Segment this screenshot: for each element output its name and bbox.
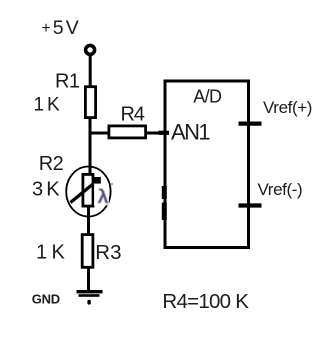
- svg-text:R4=100 K: R4=100 K: [162, 290, 249, 313]
- wire: terminal to R1: [89, 54, 92, 87]
- svg-text:A/D: A/D: [193, 86, 222, 106]
- wire: R1 to R2 through node A: [89, 117, 92, 174]
- svg-text:λ: λ: [98, 186, 109, 208]
- resistor body R2: [83, 174, 93, 206]
- thermistor R2 circle: [66, 167, 110, 217]
- resistor R4: [109, 126, 146, 138]
- resistor R3: [82, 235, 93, 268]
- svg-text:Vref(-): Vref(-): [258, 180, 303, 199]
- pin Vref(-): [239, 203, 262, 207]
- pin Vref(+): [239, 121, 262, 125]
- +5V terminal: [86, 45, 95, 54]
- svg-text:+5V: +5V: [42, 17, 79, 39]
- svg-text:3 K: 3 K: [32, 179, 60, 201]
- svg-text:Vref(+): Vref(+): [263, 98, 312, 117]
- resistor R1: [85, 87, 95, 118]
- ground bar 1: [77, 290, 103, 293]
- svg-text:R3: R3: [95, 241, 121, 264]
- ground dash: [87, 300, 90, 305]
- wire: node A to AN1: [89, 132, 167, 135]
- wire: R3 to ground: [87, 267, 90, 292]
- R2 arrow: [71, 182, 97, 203]
- svg-text:R1: R1: [55, 70, 80, 92]
- svg-text:R2: R2: [39, 153, 64, 175]
- lambda patch: [94, 184, 109, 206]
- svg-text:AN1: AN1: [171, 119, 210, 144]
- wire: R2 to R3: [87, 206, 90, 235]
- pin tick AN1: [159, 131, 170, 135]
- svg-text:GND: GND: [32, 291, 60, 306]
- left edge pin mark lower: [162, 203, 167, 221]
- svg-text:1 K: 1 K: [36, 242, 65, 264]
- svg-text:R4: R4: [121, 103, 145, 125]
- left edge pin mark upper: [162, 186, 167, 199]
- ground bar 2: [79, 294, 100, 297]
- artifact dot: [111, 183, 113, 185]
- A/D converter box U1: [165, 81, 249, 248]
- svg-text:1 K: 1 K: [34, 94, 60, 115]
